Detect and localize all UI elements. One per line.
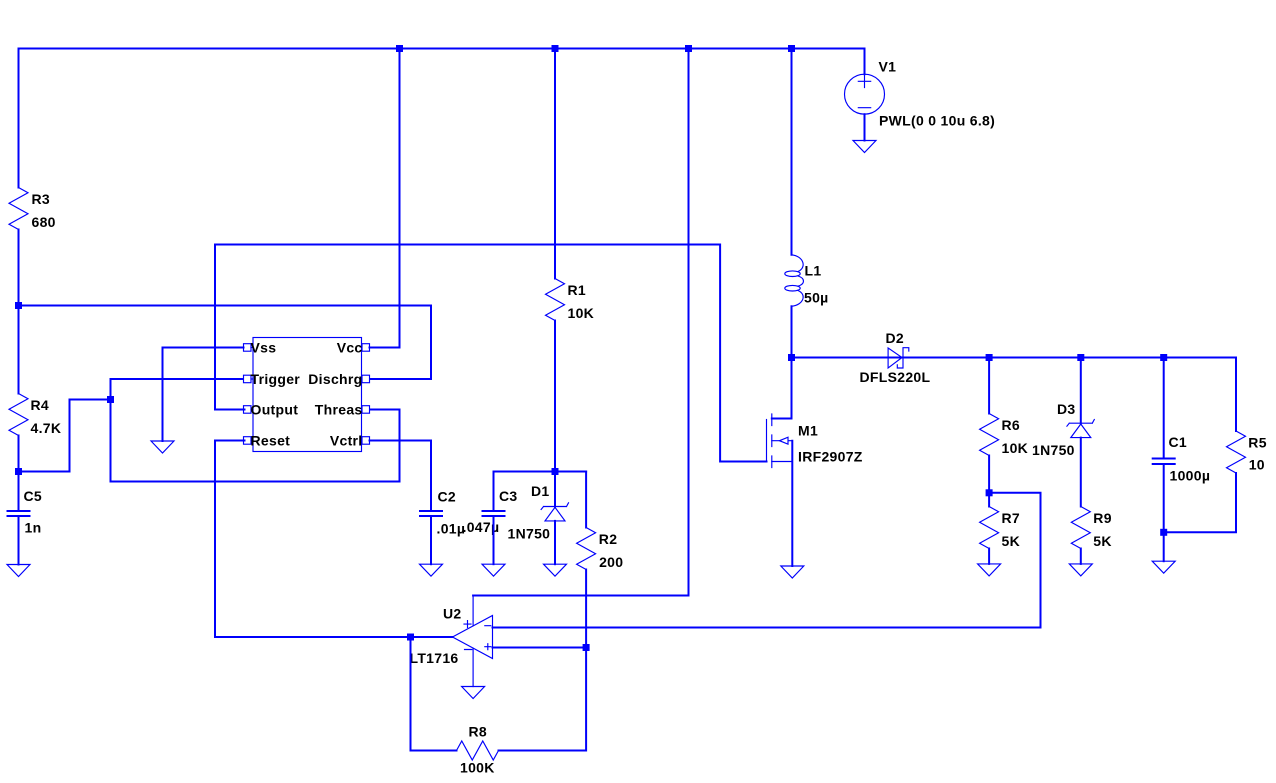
wire C1 node to ground (1163, 532, 1165, 561)
diode D3 zener (1032, 401, 1094, 458)
wire D1 top lead (554, 472, 556, 507)
resistor R5 (1227, 431, 1267, 473)
node junction x585.6 y647 (583, 644, 590, 651)
svg-text:R7: R7 (1002, 510, 1021, 526)
svg-text:Dischrg: Dischrg (308, 371, 362, 387)
svg-text:D2: D2 (886, 330, 905, 346)
wire R6 top lead (988, 358, 990, 414)
ground D1 (544, 564, 567, 576)
svg-text:R8: R8 (469, 723, 488, 739)
resistor R3 (9, 188, 56, 230)
node junction x988.6 y357 (986, 354, 993, 361)
wire C3 D1 R2 top (494, 471, 587, 473)
svg-text:DFLS220L: DFLS220L (860, 369, 931, 385)
svg-text:680: 680 (32, 214, 56, 230)
node junction x554.5 y471 (552, 468, 559, 475)
node junction top rail x399 (396, 45, 403, 52)
wire D2 anode lead (792, 357, 904, 359)
svg-text:Reset: Reset (251, 433, 291, 449)
node junction x110 y399 (107, 396, 114, 403)
svg-text:R2: R2 (599, 531, 618, 547)
wire R9 bottom lead (1080, 549, 1082, 564)
wire D1 bottom lead (554, 521, 556, 564)
wire C1 node to R5 bottom (1164, 473, 1236, 532)
svg-text:C2: C2 (438, 488, 457, 504)
wire R1 bottom lead (554, 321, 556, 472)
capacitor C3 (463, 488, 518, 535)
pin Threas (362, 406, 370, 414)
wire Reset to U2 output (215, 441, 411, 638)
wire R4 node to trigger node (19, 400, 111, 472)
wire V1 top lead (864, 49, 866, 75)
wire R6 node to U2 inverting input (493, 493, 1041, 628)
svg-text:10K: 10K (568, 305, 595, 321)
svg-text:R6: R6 (1002, 417, 1021, 433)
svg-text:PWL(0 0 10u 6.8): PWL(0 0 10u 6.8) (879, 113, 995, 129)
wire U2 output to apex (411, 636, 453, 638)
capacitor C1 (1152, 434, 1211, 483)
svg-text:R5: R5 (1248, 434, 1267, 450)
resistor R7 (980, 507, 1020, 549)
wire R8 feedback left (411, 637, 457, 751)
wire C5 top lead (18, 472, 20, 512)
wire Vctrl to C2 (370, 441, 432, 512)
svg-text:5K: 5K (1002, 533, 1021, 549)
resistor R2 (577, 528, 624, 570)
node junction top rail x791 (788, 45, 795, 52)
diode D2 schottky (860, 330, 931, 385)
svg-text:Vss: Vss (251, 340, 277, 356)
svg-text:10K: 10K (1002, 440, 1029, 456)
wire R6 bottom lead (988, 456, 990, 493)
wire D2 cathode to output rail (903, 358, 1236, 432)
ground R7 (978, 564, 1001, 576)
svg-text:IRF2907Z: IRF2907Z (798, 449, 863, 465)
svg-text:LT1716: LT1716 (410, 650, 459, 666)
svg-text:4.7K: 4.7K (31, 420, 62, 436)
wire R3 to node (18, 230, 20, 306)
wire R7 top lead (988, 493, 990, 507)
node junction top rail x554 (552, 45, 559, 52)
resistor R1 (546, 279, 595, 322)
wire inductor L1 top lead (791, 49, 793, 255)
ground Vss (151, 441, 174, 453)
wire D3 top lead (1080, 358, 1082, 424)
wire node to Dischrg (19, 306, 432, 380)
wire node down to R4 (18, 306, 20, 394)
svg-text:Output: Output (251, 402, 299, 418)
ground U2 vminus (462, 687, 485, 699)
wire top supply rail (19, 48, 865, 50)
pin Reset (244, 437, 252, 445)
svg-text:1N750: 1N750 (508, 525, 551, 541)
node junction x1163.2 y357 (1160, 354, 1167, 361)
node junction x988.6 y492.3 (986, 489, 993, 496)
svg-text:Threas: Threas (315, 402, 363, 418)
ground M1 source (781, 566, 804, 578)
wire left column top (18, 49, 20, 188)
resistor R6 (980, 414, 1028, 456)
wire node to Trigger pin (111, 379, 245, 400)
svg-text:Vcc: Vcc (337, 340, 363, 356)
diode D1 zener (508, 483, 569, 542)
wire R4 to node (18, 436, 20, 472)
node junction x18 y471 (15, 468, 22, 475)
wire R2 bottom lead (585, 570, 587, 648)
wire R2 top lead (585, 472, 587, 528)
wire Vcc to top rail (370, 49, 400, 348)
ground C2 (420, 564, 443, 576)
wire V1 bottom lead (864, 114, 866, 140)
node junction U2 output x410 y636.5 (407, 634, 414, 641)
svg-text:U2: U2 (443, 605, 462, 621)
U1 pin labels (251, 340, 363, 449)
comparator U2 LT1716 (410, 596, 493, 687)
svg-text:R3: R3 (32, 191, 51, 207)
ground C1 (1152, 561, 1175, 573)
node junction x791 y357 (788, 354, 795, 361)
node junction x1080.3 y357 (1077, 354, 1084, 361)
wire R7 bottom lead (988, 549, 990, 564)
svg-text:D1: D1 (531, 483, 550, 499)
wire C1 bottom lead (1163, 464, 1165, 532)
svg-text:1N750: 1N750 (1032, 442, 1075, 458)
svg-text:.01µ: .01µ (437, 520, 466, 536)
svg-text:1n: 1n (25, 520, 42, 536)
svg-text:L1: L1 (805, 262, 822, 278)
wire R1 top lead (554, 49, 556, 279)
svg-text:C3: C3 (499, 488, 518, 504)
wire C3 bottom lead (493, 516, 495, 564)
pin Vss (244, 344, 252, 352)
wire node to Threas pin (111, 400, 400, 482)
wire C5 bottom lead (18, 516, 20, 565)
svg-text:C1: C1 (1169, 434, 1188, 450)
inductor L1 (785, 255, 829, 306)
wire R8 right to noninverting node (499, 648, 587, 751)
pin Dischrg (362, 375, 370, 383)
svg-text:M1: M1 (798, 422, 818, 438)
wire C2 bottom lead (430, 516, 432, 564)
svg-text:50µ: 50µ (804, 289, 829, 305)
pin Vcc (362, 344, 370, 352)
wire Output to M1 gate (215, 245, 767, 462)
wire D3 bottom lead (1080, 438, 1082, 507)
wire L1 bottom lead (791, 306, 793, 357)
pin Output (244, 406, 252, 414)
svg-text:200: 200 (599, 554, 623, 570)
ground V1 (853, 141, 876, 153)
node junction x18 y305 (15, 302, 22, 309)
ground R9 (1069, 564, 1092, 576)
pin Vctrl (362, 437, 370, 445)
svg-text:V1: V1 (879, 59, 897, 75)
resistor R9 (1071, 507, 1112, 549)
svg-text:R1: R1 (568, 282, 587, 298)
wire C3 top lead (493, 472, 495, 512)
ground C3 (482, 564, 505, 576)
pin Trigger (244, 375, 252, 383)
svg-text:5K: 5K (1093, 533, 1112, 549)
wire C1 top lead (1163, 358, 1165, 459)
ground C5 (7, 565, 30, 577)
svg-text:Trigger: Trigger (251, 371, 301, 387)
node junction top rail x688 (685, 45, 692, 52)
resistor R8 (457, 723, 499, 775)
svg-text:100K: 100K (460, 760, 495, 776)
wire U2 vplus to top rail (473, 49, 688, 596)
capacitor C2 (419, 488, 465, 536)
svg-text:C5: C5 (24, 488, 43, 504)
svg-text:Vctrl: Vctrl (330, 433, 363, 449)
node junction x1163.2 y531.8 (1160, 529, 1167, 536)
svg-text:R4: R4 (31, 397, 50, 413)
capacitor C5 (7, 488, 43, 536)
transistor M1 nmos (767, 358, 863, 567)
svg-text:1000µ: 1000µ (1170, 467, 1211, 483)
resistor R4 (9, 394, 61, 436)
wire Vss to ground (163, 348, 244, 442)
voltage source V1 (845, 59, 996, 129)
svg-text:10: 10 (1249, 456, 1265, 472)
op-amp U1 555 timer body (253, 338, 362, 452)
wire U2 noninverting input (493, 647, 587, 649)
svg-text:R9: R9 (1093, 510, 1112, 526)
svg-text:D3: D3 (1057, 401, 1076, 417)
